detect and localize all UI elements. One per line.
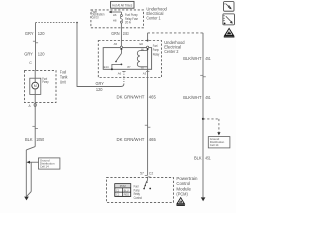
circuit label GRY 120 (mid) (96, 81, 104, 92)
underhood electrical center 1 box (91, 10, 144, 28)
coil control wire 465 (vertical) (147, 48, 149, 175)
svg-text:A3: A3 (143, 71, 147, 75)
pcm driver switch (143, 177, 151, 190)
svg-text:A6: A6 (118, 71, 122, 75)
junction to ground distribution branch (202, 118, 221, 136)
circuit label GRN 1043 (111, 31, 129, 36)
svg-text:Pump: Pump (153, 48, 159, 52)
svg-text:Pump: Pump (42, 80, 49, 84)
svg-text:451: 451 (205, 156, 211, 161)
svg-text:87: 87 (127, 65, 131, 69)
link icon 1 (224, 2, 234, 12)
pump motor M (32, 71, 39, 103)
pcm id table (115, 184, 131, 197)
warning triangle below pcm label (176, 197, 185, 206)
svg-text:E6: E6 (140, 42, 144, 46)
svg-text:465: 465 (149, 137, 157, 142)
fuel tank unit label (60, 69, 68, 84)
splice on 451 wire (200, 75, 206, 77)
svg-text:465: 465 (149, 95, 157, 100)
wire fuse to relay (GRN 1043) (120, 23, 122, 46)
circuit label BLK/WHT 451 (upper) (183, 56, 211, 61)
relay internal pin labels (104, 48, 145, 69)
svg-text:Hot At All Times: Hot At All Times (112, 4, 132, 8)
svg-text:GRY: GRY (96, 81, 104, 86)
svg-text:57: 57 (140, 172, 144, 176)
svg-text:M: M (34, 84, 37, 88)
fuel tank unit box (25, 71, 57, 103)
svg-text:H6: H6 (113, 13, 117, 17)
svg-text:C: C (29, 61, 32, 65)
svg-text:E14: E14 (104, 65, 109, 69)
dashed jumper wire top (36, 22, 78, 24)
svg-text:451: 451 (205, 95, 211, 100)
fuse Fuel Pump Relay 20A (113, 12, 123, 23)
splice on 465 wire (145, 125, 151, 127)
circuit label GRY 120 (top) (25, 31, 45, 36)
svg-text:Cell 14: Cell 14 (210, 143, 219, 147)
svg-text:RED: RED (124, 193, 130, 197)
pin label A below tank (29, 103, 37, 108)
power distribution cell 10 label (92, 10, 105, 20)
svg-text:20 A: 20 A (125, 21, 131, 25)
svg-text:Center 1: Center 1 (146, 16, 161, 21)
dotted wire relay output to pump feed (77, 71, 124, 86)
left riser wire (76, 22, 78, 87)
pin label E6 (140, 42, 144, 46)
svg-text:GRN: GRN (111, 31, 119, 36)
svg-text:120: 120 (38, 31, 45, 36)
svg-text:451: 451 (205, 56, 211, 61)
dashed link wire to BLK/WHT 451 riser (148, 33, 203, 41)
pump inner box (30, 78, 41, 94)
fuel pump relay label (153, 44, 160, 57)
circuit label BLK 1050 (25, 137, 45, 142)
relay pin circle A5 (120, 46, 122, 48)
svg-text:120: 120 (96, 87, 103, 92)
svg-text:GRY: GRY (24, 52, 33, 57)
svg-text:C2: C2 (149, 172, 153, 176)
fuse value label (125, 13, 138, 25)
svg-text:1043: 1043 (123, 31, 129, 36)
switch output pin label A6 (118, 71, 126, 75)
svg-text:A5: A5 (114, 42, 118, 46)
underhood electrical center 1 label (146, 7, 167, 21)
battery feed arrow (109, 11, 122, 13)
fuel pump feed wire GRY 120 (35, 23, 37, 71)
svg-text:BLK: BLK (25, 137, 33, 142)
svg-text:BLU: BLU (124, 188, 129, 192)
svg-text:120: 120 (38, 52, 45, 57)
pump ground wire BLK 1050 (26, 103, 35, 197)
powertrain control module label (176, 176, 198, 196)
ground symbol left (24, 197, 29, 201)
svg-text:1050: 1050 (36, 137, 45, 142)
warning triangle icon top right (224, 28, 235, 38)
fuel pump relay control label (134, 185, 143, 200)
svg-text:BLK/WHT: BLK/WHT (183, 95, 202, 100)
svg-text:H8: H8 (113, 19, 117, 23)
junction dot on box 2 edge (147, 40, 149, 42)
circuit label DK GRN/WHT 465 (upper) (117, 95, 157, 100)
svg-text:Unit: Unit (60, 80, 66, 85)
svg-text:DK GRN/WHT: DK GRN/WHT (117, 95, 145, 100)
svg-text:PCM: PCM (120, 184, 127, 188)
ground distribution cell 14 box (left) (39, 158, 60, 169)
underhood electrical center 2 label (164, 40, 185, 54)
svg-text:Fuel: Fuel (153, 44, 158, 48)
relay switch (111, 48, 122, 70)
coil pin label A3 and tick (143, 71, 150, 75)
ground distribution cell 14 box (right) (208, 137, 230, 148)
right ground riser BLK/WHT 451 (202, 33, 204, 198)
circuit label BLK/WHT 451 (lower) (183, 95, 211, 100)
connector label C (29, 61, 32, 65)
svg-text:C1: C1 (116, 188, 120, 192)
inline connector on ground wire (32, 126, 38, 128)
underhood electrical center 2 box (98, 41, 161, 78)
svg-text:BLK: BLK (194, 156, 202, 161)
splice on feed wire (33, 41, 38, 43)
circuit label GRY 120 (second) (24, 52, 45, 57)
svg-text:Cell 10: Cell 10 (92, 15, 99, 19)
circuit label BLK 451 (bottom) (194, 156, 211, 161)
pcm module dashed box (107, 178, 174, 203)
svg-text:BLK/WHT: BLK/WHT (183, 56, 202, 61)
relay coil (137, 51, 147, 67)
svg-text:C2: C2 (116, 193, 120, 197)
fuel pump label (42, 77, 49, 84)
aux ground wire (27, 162, 32, 196)
link icon 2 (223, 14, 235, 25)
circuit label DK GRN/WHT 465 (lower) (117, 137, 157, 142)
svg-text:Center 2: Center 2 (164, 49, 179, 54)
ground symbol right (201, 197, 206, 201)
svg-text:(PCM): (PCM) (176, 191, 188, 196)
pcm pin 57 connector C2 (140, 172, 153, 177)
svg-text:GRY: GRY (25, 31, 34, 36)
svg-text:DK GRN/WHT: DK GRN/WHT (117, 137, 145, 142)
fuel pump relay box (103, 48, 151, 70)
pin label A5 (114, 42, 118, 46)
svg-text:Cell 14: Cell 14 (40, 164, 49, 168)
svg-text:A: A (29, 104, 32, 108)
ground distribution arrow (left) (26, 161, 38, 164)
relay pin circle E6 (147, 46, 149, 48)
svg-text:Control: Control (134, 196, 143, 200)
svg-text:Relay: Relay (153, 53, 160, 57)
hot at all times box (111, 1, 134, 8)
